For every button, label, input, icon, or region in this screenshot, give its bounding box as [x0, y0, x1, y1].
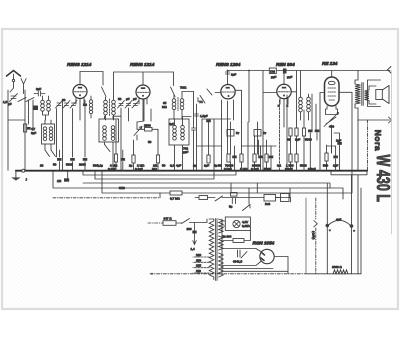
svg-text:4μF: 4μF: [169, 122, 174, 126]
arrow down: [193, 223, 197, 245]
svg-text:50: 50: [118, 97, 122, 101]
heater rail b: [95, 171, 214, 179]
svg-text:5000: 5000: [305, 138, 312, 142]
svg-text:μF: μF: [126, 97, 130, 101]
electrolytic C14: [326, 184, 328, 274]
detector coil L5: [299, 97, 303, 101]
tube V4: [277, 84, 291, 98]
grid cap C8: [225, 72, 229, 74]
choke DrS: [264, 195, 276, 202]
svg-text:RENS 1264: RENS 1264: [216, 62, 241, 67]
capacitor C7: [192, 92, 196, 171]
svg-text:0,1μF: 0,1μF: [285, 167, 293, 171]
rail e with resistor: [102, 171, 352, 193]
power transformer core: [216, 219, 217, 281]
svg-text:1,5: 1,5: [3, 100, 8, 104]
capacitor C13 (dark): [337, 142, 342, 145]
svg-text:110: 110: [196, 269, 201, 273]
svg-text:RGN 1054: RGN 1054: [253, 241, 275, 246]
svg-text:(-14V): (-14V): [311, 231, 315, 239]
svg-text:0,7 MΩ: 0,7 MΩ: [170, 197, 181, 201]
trimmer caps row left of V2: [118, 101, 125, 109]
connector box under V5: [326, 106, 338, 115]
IF transformer T4 coil A: [173, 125, 177, 129]
capacitor C4b (dark): [83, 104, 87, 107]
svg-text:Dr: Dr: [263, 131, 266, 135]
resistor R4a: [132, 155, 135, 163]
svg-text:2μF: 2μF: [36, 87, 41, 91]
svg-text:2μ: 2μ: [214, 164, 218, 168]
svg-text:μμF: μμF: [183, 150, 188, 154]
speaker: [376, 90, 383, 100]
IF transformer T1 coil B: [112, 100, 116, 104]
svg-text:50: 50: [162, 164, 166, 168]
capacitor C20 (dark): [269, 156, 274, 159]
rectifier tube RGN1054: [260, 249, 274, 263]
antenna coil L2: [47, 100, 51, 104]
resistor R9: [289, 154, 292, 162]
capacitor 100pF (dark): [192, 231, 196, 234]
IF transformer T3 coil B: [180, 99, 184, 103]
svg-text:RENS 1214: RENS 1214: [130, 62, 155, 67]
svg-text:150: 150: [196, 258, 201, 262]
svg-text:50: 50: [53, 163, 57, 167]
4uF arc: [329, 220, 350, 225]
svg-text:1500: 1500: [144, 124, 151, 128]
mains lead with fuse: [148, 222, 163, 224]
svg-text:125: 125: [196, 264, 201, 268]
capacitor C3 (dark): [70, 158, 75, 161]
oscillator coil box: [42, 124, 55, 144]
arrow to frame aerial: [388, 67, 392, 74]
capacitor C1: [34, 91, 45, 96]
svg-text:μμF: μμF: [287, 75, 292, 79]
grid-cap switch S1: [102, 87, 107, 97]
output transformer core: [362, 83, 363, 106]
capacitor C16: [195, 114, 199, 116]
resistor R11: [325, 153, 328, 161]
iron-core slug (dark): [33, 106, 38, 111]
svg-text:W 430 L: W 430 L: [373, 155, 394, 203]
IF transformer T2 coil B: [111, 126, 115, 130]
svg-text:1μF: 1μF: [295, 138, 300, 142]
heater rail a: [83, 171, 236, 175]
heater tap bars: [238, 250, 248, 258]
resistor R3 (horizontal): [145, 128, 153, 132]
capacitor C18 (dark): [232, 156, 237, 159]
svg-text:7MΩ: 7MΩ: [180, 86, 187, 90]
capacitor C5 (dark): [121, 158, 126, 161]
bus junction dots: [24, 170, 26, 172]
svg-text:REN 904: REN 904: [276, 62, 295, 67]
svg-text:RENS 1214: RENS 1214: [67, 62, 92, 67]
potentiometer 400ohm: [324, 113, 339, 127]
svg-text:2μF: 2μF: [31, 131, 36, 135]
svg-text:Rt 304: Rt 304: [223, 235, 232, 239]
svg-text:40: 40: [287, 138, 291, 142]
svg-text:1000 Ω: 1000 Ω: [332, 265, 343, 269]
tube V3: [221, 85, 235, 99]
svg-text:220: 220: [196, 253, 201, 257]
terminal circle: [22, 169, 25, 172]
padder switch: [45, 150, 56, 157]
negative bias dash line: [315, 198, 317, 274]
resistor RF: [199, 196, 208, 200]
tube V5 (oval): [325, 77, 340, 106]
svg-text:5000: 5000: [300, 164, 307, 168]
svg-text:1/2: 1/2: [57, 179, 62, 183]
svg-text:0,35A: 0,35A: [242, 224, 250, 228]
svg-text:+: +: [329, 228, 331, 232]
tube V1: [73, 85, 87, 99]
pilot lamp: [233, 220, 240, 227]
resistor R4: [156, 155, 159, 163]
capacitor C17 (dark): [206, 120, 211, 123]
svg-text:Nora: Nora: [373, 130, 383, 151]
ground symbol: [15, 171, 17, 178]
fuse 347: [163, 221, 176, 226]
decoupling box DM: [269, 68, 276, 74]
resistor R7: [295, 128, 298, 136]
svg-text:Dr: Dr: [236, 131, 239, 135]
faint chassis line right: [391, 71, 393, 235]
primary taps: [193, 257, 209, 273]
svg-text:4μF: 4μF: [336, 218, 341, 222]
IF transformer T4 box: [169, 119, 189, 145]
resistor R12: [207, 155, 210, 163]
rail c: [83, 183, 330, 188]
trimmer capacitor left: [10, 94, 18, 102]
svg-text:RE 134: RE 134: [322, 61, 338, 66]
right vertical feed: [358, 175, 361, 274]
svg-text:μF: μF: [133, 97, 137, 101]
oscillator coil L4: [49, 127, 52, 130]
bottom rail: [150, 273, 307, 275]
capacitor C19 (dark): [258, 156, 263, 159]
svg-text:1μF: 1μF: [333, 164, 338, 168]
antenna: [7, 71, 21, 77]
IF transformer T4 coil B: [181, 125, 185, 129]
svg-text:2000: 2000: [79, 163, 86, 167]
svg-text:0,1μF: 0,1μF: [251, 167, 259, 171]
antenna coil L1: [41, 100, 45, 104]
resistor R6: [289, 128, 292, 136]
rail f dash: [53, 197, 160, 199]
B+ vertical: [305, 198, 307, 274]
resistor 0.7Mohm: [170, 191, 182, 195]
IF transformer T3 coil A: [172, 99, 176, 103]
resistor RI304: [233, 239, 244, 243]
capacitor C11 (dark): [315, 130, 320, 133]
switch S2: [105, 145, 111, 152]
resistor R2: [114, 154, 117, 162]
svg-text:μμF: μμF: [271, 75, 276, 79]
resistor R16: [265, 154, 268, 162]
svg-text:100: 100: [187, 227, 192, 231]
svg-text:0,1: 0,1: [170, 164, 175, 168]
capacitor C4 (dark): [83, 158, 88, 161]
switch T4: [198, 89, 212, 103]
svg-text:500: 500: [93, 164, 98, 168]
power transformer primary: [209, 221, 214, 277]
capacitor C12 (dark): [333, 156, 338, 159]
svg-text:0,1μF: 0,1μF: [108, 167, 116, 171]
main ground bus: [16, 170, 367, 172]
heater leads to tubes: [222, 219, 256, 274]
choke Dr2: [254, 130, 261, 137]
wire left vertical: [7, 90, 9, 170]
svg-text:20: 20: [40, 164, 44, 168]
voltage selector group: [231, 193, 238, 197]
heater shunt (dark): [64, 178, 69, 181]
svg-text:5μ: 5μ: [229, 205, 233, 209]
box around pilot lamp: [225, 217, 250, 230]
wires left block: [8, 90, 85, 170]
svg-text:T4: T4: [199, 100, 203, 104]
svg-text:400: 400: [329, 125, 334, 129]
svg-text:5000: 5000: [66, 163, 73, 167]
resistor R10: [295, 154, 298, 162]
wires mid-right: [287, 93, 324, 171]
band switch contacts: [18, 98, 34, 102]
svg-text:347 Ω: 347 Ω: [164, 217, 173, 221]
svg-text:500: 500: [323, 164, 328, 168]
capacitor C10 (dark): [308, 130, 313, 133]
trimmer caps row under tube V1: [56, 101, 63, 109]
mains filter box right: [281, 194, 290, 202]
choke Dr1: [227, 130, 234, 137]
speaker feed line: [358, 117, 392, 123]
svg-text:6841,5: 6841,5: [233, 260, 243, 264]
regeneration pot arrow: [134, 126, 142, 135]
mains filter row: [195, 188, 290, 198]
svg-text:1,4: 1,4: [191, 247, 196, 251]
svg-text:0,5μF: 0,5μF: [308, 167, 316, 171]
capacitor C9: [222, 100, 234, 154]
resistor R13: [227, 154, 230, 162]
detector coil L6: [307, 97, 311, 101]
svg-text:30: 30: [62, 98, 66, 102]
svg-text:4μF: 4μF: [176, 164, 181, 168]
svg-text:5000: 5000: [264, 167, 271, 171]
capacitor Ca (dark): [26, 127, 30, 130]
capacitor C2 (dark): [57, 158, 62, 161]
grid-cap switch S3: [171, 87, 176, 97]
speaker coupling frame: [368, 80, 381, 107]
dash-dot vertical right: [367, 120, 369, 171]
tube V2: [136, 85, 150, 99]
switch S4: [215, 196, 223, 201]
svg-text:μF: μF: [8, 102, 12, 106]
svg-text:1μF: 1μF: [231, 73, 236, 77]
electrolytic C15: [351, 175, 353, 274]
IF transformer T2 box: [99, 119, 119, 142]
IF transformer T1 coil A: [104, 100, 108, 104]
output transformer primary: [355, 84, 361, 104]
resistor R8: [302, 128, 305, 136]
top supply line: [228, 70, 391, 72]
switch S5: [182, 219, 208, 224]
power transformer secondary windings: [219, 219, 224, 233]
svg-text:1,5μF: 1,5μF: [200, 114, 208, 118]
svg-text:+: +: [353, 229, 355, 233]
oscillator coil L3: [43, 127, 46, 130]
mid verticals detector stage: [197, 104, 272, 170]
RF coil L2b: [89, 100, 92, 103]
svg-text:DrS: DrS: [265, 202, 270, 206]
svg-text:2μ: 2μ: [129, 164, 133, 168]
rail d: [53, 171, 343, 199]
resistor R1: [24, 124, 27, 132]
svg-text:1μF: 1μF: [204, 164, 209, 168]
resistor 1000ohm: [333, 270, 348, 274]
right end bus box: [331, 171, 367, 175]
svg-text:0,1μF: 0,1μF: [135, 167, 143, 171]
resistor R14: [240, 154, 243, 162]
svg-text:MΩ: MΩ: [162, 105, 167, 109]
IF transformer T2 coil A: [103, 126, 107, 130]
svg-text:50: 50: [148, 140, 152, 144]
svg-text:1μF: 1μF: [336, 139, 341, 143]
output transformer secondary: [365, 90, 370, 101]
svg-text:DM: DM: [270, 70, 275, 74]
resistor R15: [253, 154, 256, 162]
aux antenna terminal: [21, 79, 26, 94]
